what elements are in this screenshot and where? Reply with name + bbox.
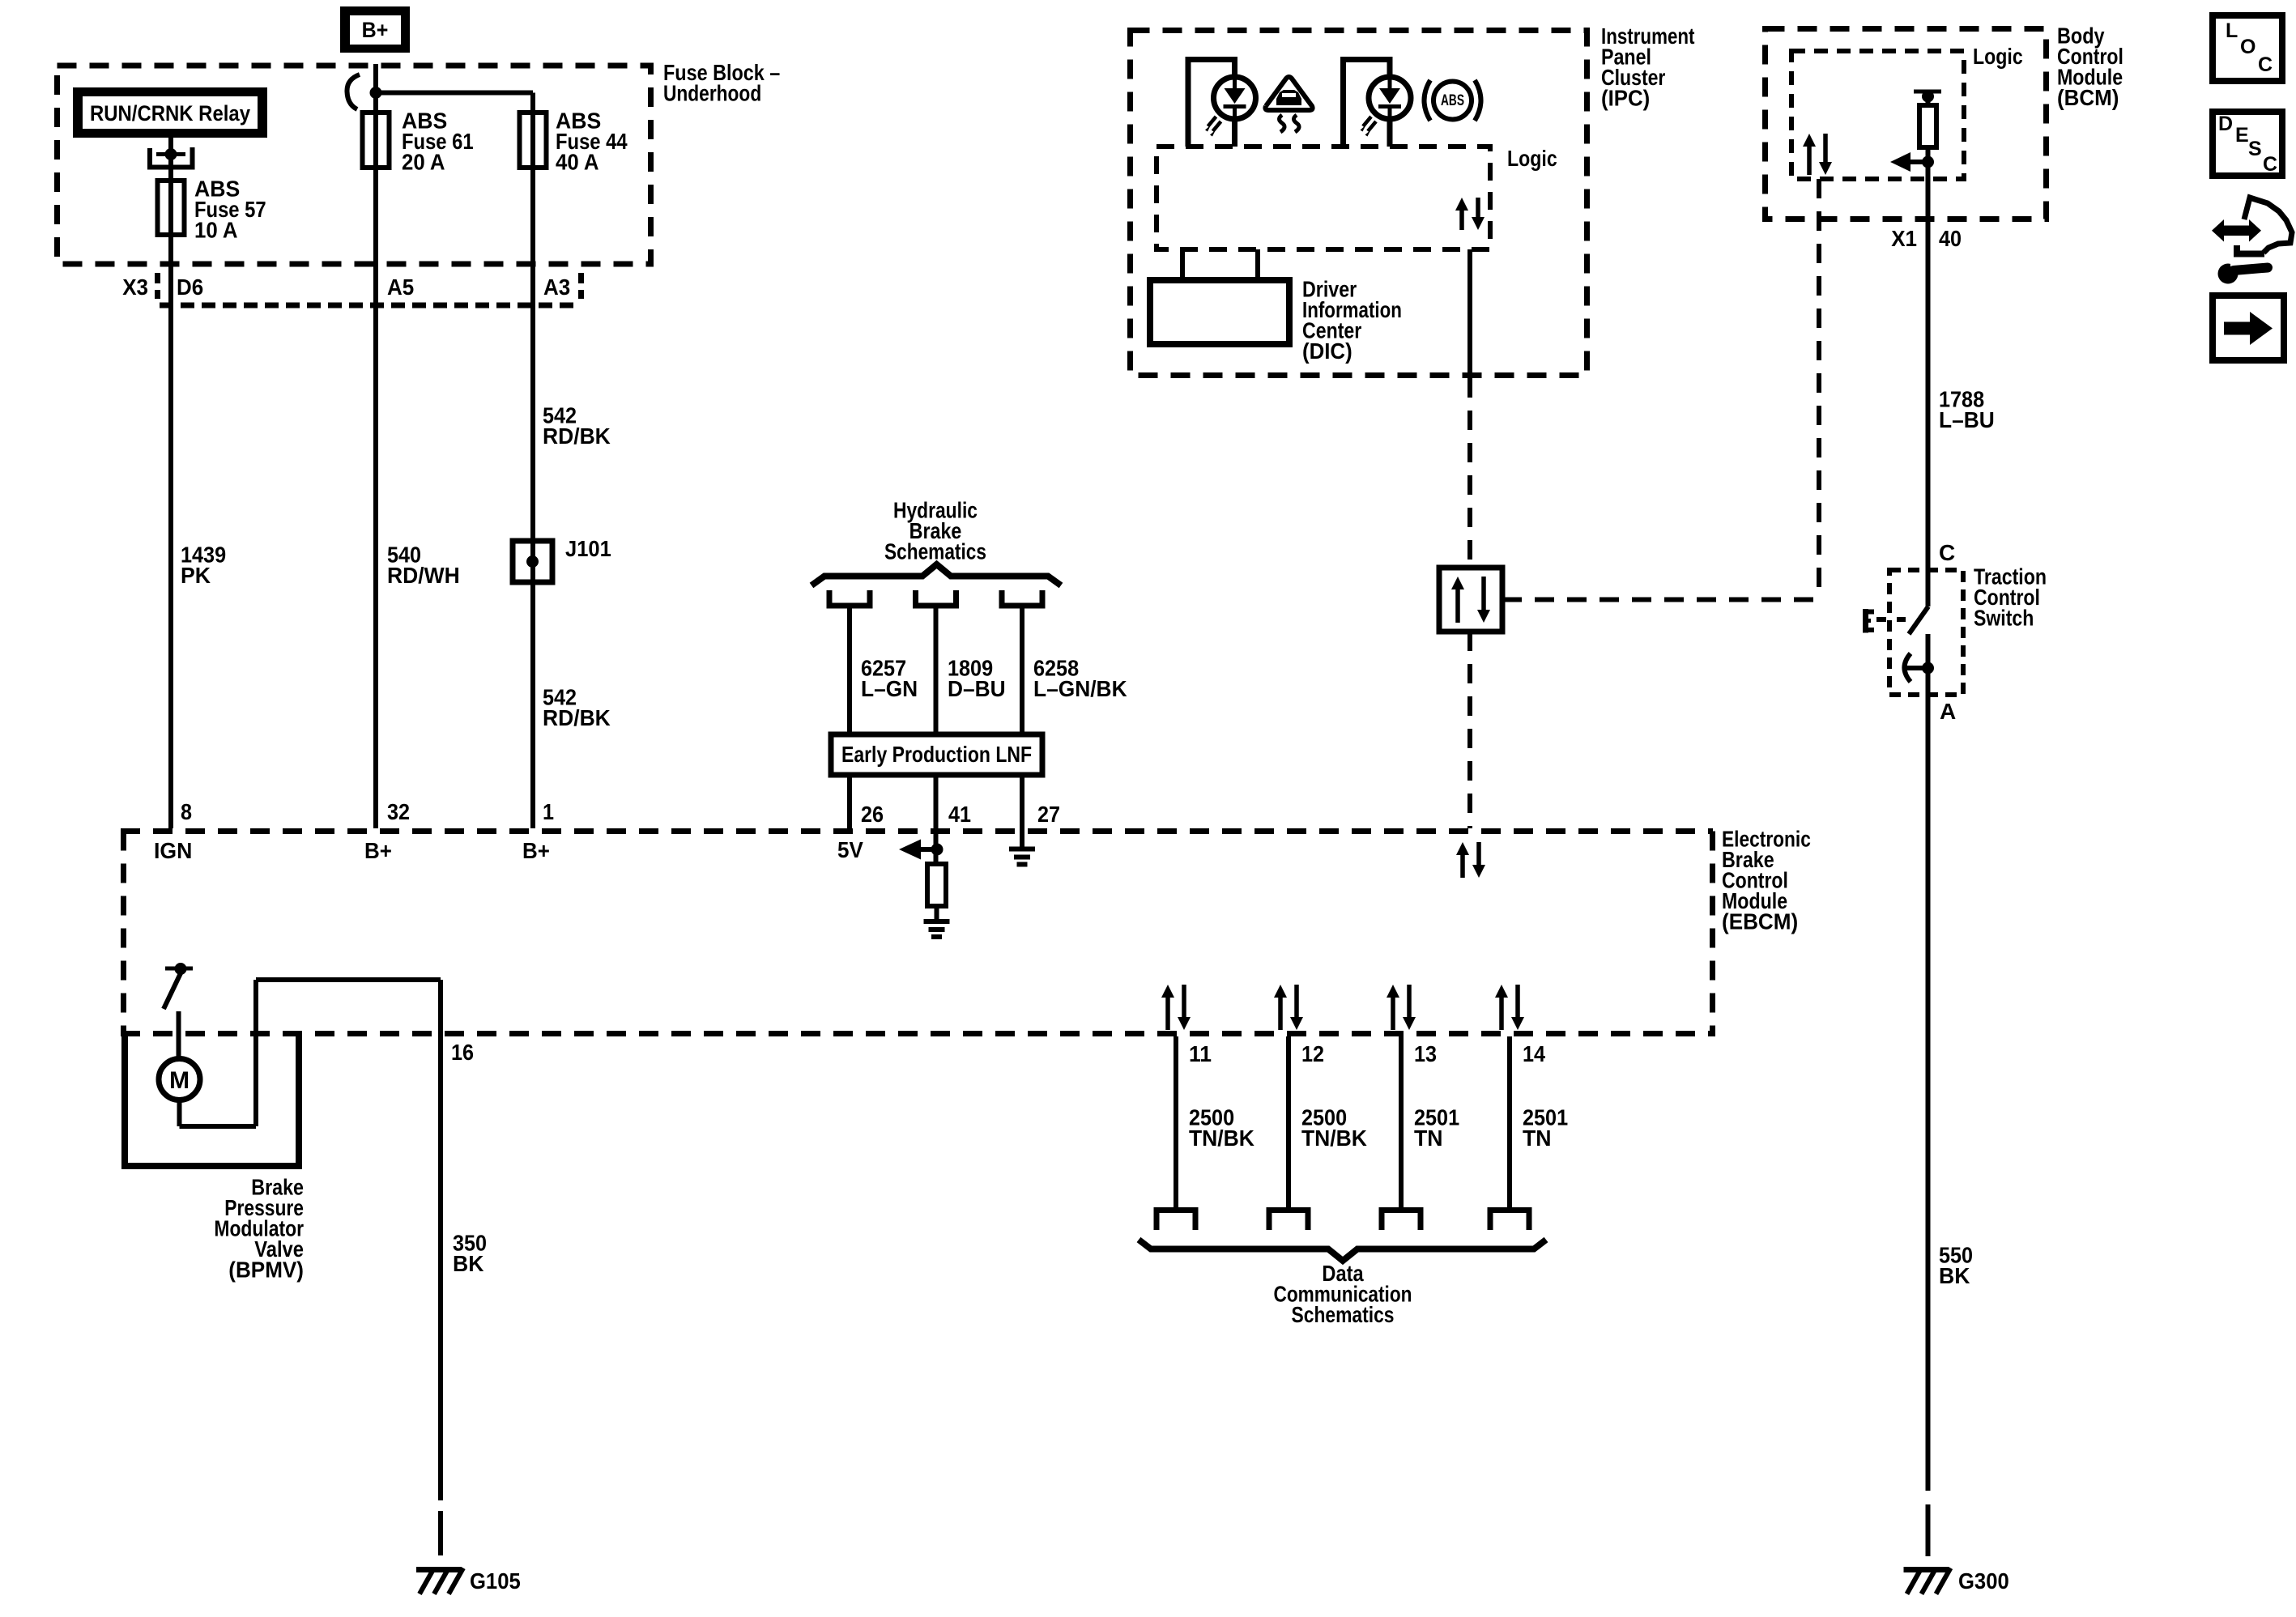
svg-text:J101: J101 <box>565 536 611 561</box>
svg-text:X3: X3 <box>122 274 148 300</box>
svg-text:C: C <box>1939 540 1955 565</box>
svg-text:(EBCM): (EBCM) <box>1722 908 1798 934</box>
svg-text:M: M <box>169 1067 190 1094</box>
svg-text:TN: TN <box>1414 1126 1443 1151</box>
svg-text:RD/BK: RD/BK <box>543 705 611 730</box>
svg-text:G300: G300 <box>1958 1568 2009 1594</box>
svg-text:TN/BK: TN/BK <box>1189 1126 1254 1151</box>
svg-text:ABS: ABS <box>1441 92 1464 109</box>
svg-text:A5: A5 <box>387 274 414 300</box>
svg-text:(BCM): (BCM) <box>2057 85 2119 110</box>
svg-text:IGN: IGN <box>154 838 192 863</box>
svg-text:S: S <box>2248 138 2262 160</box>
svg-text:O: O <box>2240 36 2256 58</box>
svg-text:D–BU: D–BU <box>948 676 1006 701</box>
svg-text:27: 27 <box>1037 802 1060 827</box>
svg-text:8: 8 <box>181 799 192 824</box>
svg-text:RUN/CRNK Relay: RUN/CRNK Relay <box>90 101 250 126</box>
svg-text:G105: G105 <box>470 1568 521 1594</box>
svg-text:(IPC): (IPC) <box>1601 85 1650 110</box>
svg-text:Underhood: Underhood <box>663 80 761 105</box>
svg-text:PK: PK <box>181 563 211 588</box>
svg-text:Switch: Switch <box>1974 605 2034 630</box>
svg-text:41: 41 <box>948 802 971 827</box>
svg-text:5V: 5V <box>837 837 863 862</box>
svg-text:26: 26 <box>861 802 884 827</box>
svg-text:Schematics: Schematics <box>1292 1302 1395 1327</box>
svg-text:12: 12 <box>1301 1041 1324 1066</box>
svg-text:(DIC): (DIC) <box>1302 338 1352 364</box>
svg-text:(BPMV): (BPMV) <box>228 1257 304 1282</box>
svg-text:TN/BK: TN/BK <box>1301 1126 1367 1151</box>
svg-text:Logic: Logic <box>1507 146 1557 171</box>
svg-text:BK: BK <box>453 1251 483 1276</box>
svg-text:20 A: 20 A <box>402 149 445 174</box>
svg-text:BK: BK <box>1939 1263 1970 1288</box>
svg-text:B+: B+ <box>362 18 389 42</box>
svg-text:A: A <box>1940 699 1956 724</box>
svg-text:Logic: Logic <box>1973 44 2023 69</box>
svg-text:E: E <box>2235 124 2249 147</box>
svg-text:40: 40 <box>1939 226 1962 251</box>
svg-text:D6: D6 <box>177 274 203 300</box>
svg-text:TN: TN <box>1523 1126 1552 1151</box>
svg-text:13: 13 <box>1414 1041 1437 1066</box>
svg-text:D: D <box>2218 113 2233 135</box>
svg-text:RD/WH: RD/WH <box>387 563 460 588</box>
svg-text:RD/BK: RD/BK <box>543 423 611 449</box>
svg-text:L–GN: L–GN <box>861 676 918 701</box>
svg-text:A3: A3 <box>543 274 570 300</box>
svg-text:L–BU: L–BU <box>1939 407 1995 432</box>
svg-text:C: C <box>2258 53 2273 76</box>
svg-text:1: 1 <box>543 799 554 824</box>
svg-text:C: C <box>2263 153 2277 176</box>
svg-text:10 A: 10 A <box>194 217 238 242</box>
svg-text:16: 16 <box>451 1040 474 1065</box>
svg-text:X1: X1 <box>1891 226 1917 251</box>
svg-text:40 A: 40 A <box>556 149 599 174</box>
svg-text:L: L <box>2226 19 2238 42</box>
svg-text:L–GN/BK: L–GN/BK <box>1033 676 1127 701</box>
svg-text:B+: B+ <box>364 838 392 863</box>
svg-text:11: 11 <box>1189 1041 1212 1066</box>
svg-text:14: 14 <box>1523 1041 1545 1066</box>
svg-text:Early Production LNF: Early Production LNF <box>841 742 1032 767</box>
svg-text:32: 32 <box>387 799 410 824</box>
svg-text:B+: B+ <box>522 838 550 863</box>
svg-text:Schematics: Schematics <box>884 538 986 564</box>
